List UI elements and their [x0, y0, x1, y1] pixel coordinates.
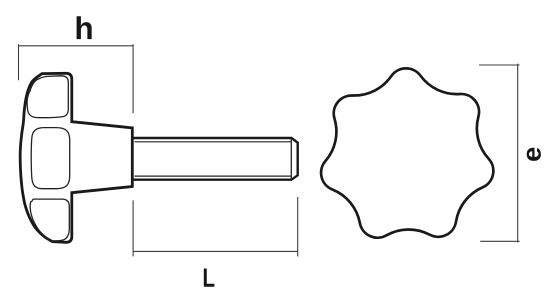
dimension e: dimension line [517, 64, 519, 243]
dimension h: dimension line [19, 45, 134, 47]
dimension L: dimension line [133, 250, 298, 252]
thread root line bottom [135, 175, 292, 177]
dimension h: right extension line [132, 44, 134, 113]
label L [204, 268, 215, 286]
knob side view: bottom lobe (thin) [30, 199, 69, 241]
dimension e: bottom extension line [480, 240, 519, 242]
knob side view: middle lobe (thin) [31, 128, 69, 189]
thread root line top [135, 141, 292, 143]
bolt shaft: outer outline with end chamfer [133, 138, 297, 180]
chamfer edge line [290, 139, 292, 179]
dimension h: left extension line [18, 44, 20, 80]
knob side view: outer outline [20, 73, 132, 242]
star knob front view outline [321, 68, 493, 237]
label e (rotated) [527, 148, 541, 161]
dimension L: left extension line [132, 200, 134, 256]
knob side view: top lobe (thin) [27, 76, 68, 118]
dimension e: top extension line [479, 64, 520, 66]
label h [77, 16, 92, 39]
dimension L: right extension line [297, 197, 299, 256]
